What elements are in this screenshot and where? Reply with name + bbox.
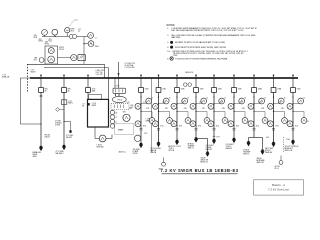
wire stub to relay A x254 — [254, 103, 262, 105]
svg-text:1 LT2: 1 LT2 — [239, 102, 243, 104]
relay 50G x273.5 — [282, 118, 288, 124]
panel 1LTS SWBT thick rectangle — [88, 99, 109, 127]
ct mark feeder F1 — [40, 94, 43, 96]
relay 51G x234 — [228, 121, 234, 127]
meter M3 varmeter — [65, 28, 70, 33]
svg-text:4TB-BLB: 4TB-BLB — [55, 122, 61, 124]
transformer T-F10a solid — [247, 141, 250, 143]
relay 50 x214 — [219, 98, 225, 104]
relay 51 x273.5 (on line left) — [268, 103, 274, 109]
svg-text:4T01: 4T01 — [216, 126, 220, 128]
svg-text:4T01: 4T01 — [295, 126, 299, 128]
svg-text:4TB: 4TB — [129, 108, 132, 110]
svg-text:7.2 KV SWGR BUS 1B 1EB3B-E3: 7.2 KV SWGR BUS 1B 1EB3B-E3 — [160, 168, 238, 173]
relay 51G x158.5 — [153, 121, 159, 127]
wire bus drop feeder F4 — [140, 78, 142, 88]
svg-text:TBR-Y2: TBR-Y2 — [243, 153, 249, 155]
svg-text:50: 50 — [187, 97, 189, 99]
ct marks feeder x214 — [213, 128, 216, 130]
svg-text:4TB: 4TB — [261, 108, 264, 110]
ct marks feeder x273.5 — [272, 128, 275, 130]
relay 51 x234 (on line left) — [228, 103, 234, 109]
svg-text:4TB: 4TB — [202, 108, 205, 110]
transformer T-F2 solid delta — [63, 145, 66, 147]
svg-text:1TB6: 1TB6 — [181, 89, 185, 91]
wire bus drop feeder F2 — [63, 78, 65, 88]
wire stub from relay box to G1 — [58, 57, 71, 59]
wire feeder F2 dashed mid — [63, 106, 65, 121]
wire feeder F5 drop — [158, 92, 160, 143]
wire stub to relay A x273.5 — [274, 103, 282, 105]
relay 50 x273.5 — [278, 98, 284, 104]
junction dots feeder x293 — [292, 96, 293, 97]
svg-text:(TB)-5T: (TB)-5T — [45, 136, 51, 138]
svg-text:4T01: 4T01 — [179, 126, 183, 128]
wire dashed pointer to PT1 — [69, 21, 74, 28]
svg-text:BILL BE IN INSTALLED UPPER BTT: BILL BE IN INSTALLED UPPER BTT/BTB, TOP … — [172, 29, 245, 32]
wire feeder F9 drop — [233, 92, 235, 139]
wire stub to relay A x177 — [177, 103, 185, 105]
svg-text:4T 1/8B: 4T 1/8B — [55, 121, 61, 123]
svg-text:SWLR: SWLR — [31, 72, 37, 74]
svg-text:7.2 kV One-Line: 7.2 kV One-Line — [268, 188, 289, 192]
svg-text:WB8-132: WB8-132 — [257, 162, 264, 164]
svg-text:1LTS: 1LTS — [92, 89, 96, 91]
wire tie drop b x118.5 — [118, 78, 120, 88]
tick feeder F8 mid — [213, 135, 216, 137]
svg-text:MB 480C: MB 480C — [66, 137, 73, 139]
svg-text:4BLV/LCC: 4BLV/LCC — [119, 151, 127, 153]
svg-text:50: 50 — [151, 97, 153, 99]
ct marks feeder x234 — [233, 128, 236, 130]
junction dots feeder x196 — [195, 96, 196, 97]
wire stub to relay A x214 — [214, 103, 222, 105]
transformer T-F4 solid delta — [140, 143, 143, 145]
wire bus drop feeder F5 — [158, 78, 160, 88]
generator G2 circle in loop — [99, 135, 106, 142]
wire feeder F10 left leg — [248, 138, 250, 143]
wire stub above bus for feeder F8 — [213, 74, 215, 77]
wire link drop x104.5 to bus — [104, 64, 106, 78]
svg-text:SWB: SWB — [92, 91, 96, 93]
svg-text:WTR B: WTR B — [169, 150, 175, 152]
wire incoming feed drop x118.5 — [118, 62, 120, 78]
svg-text:C 1: C 1 — [95, 37, 98, 39]
svg-text:4 PV: 4 PV — [144, 133, 147, 135]
wire elbow to relay C x254 — [254, 111, 265, 113]
meter M4 watthour — [88, 33, 94, 39]
transformer 1TY2-B oval — [112, 96, 126, 102]
meter M1 ammeter — [42, 30, 48, 36]
relay 51 lower circle in box — [48, 56, 55, 63]
relay 50 x293 — [298, 98, 304, 104]
relay 51G x141 — [135, 121, 141, 127]
ground symbol left group — [163, 158, 165, 163]
wire stub to relay A x141 — [141, 103, 149, 105]
wire bus drop feeder F11 — [273, 78, 275, 88]
svg-text:NOTATE TP WITE TOOK VALVE M BW: NOTATE TP WITE TOOK VALVE M BW, TOOK VL … — [175, 41, 226, 44]
svg-text:50: 50 — [224, 97, 226, 99]
relay 50G x158.5 — [167, 118, 173, 124]
title block box — [254, 180, 304, 195]
wire metering bus (horizontal) — [42, 36, 88, 38]
junction dot on panel top — [90, 99, 91, 100]
relay 50G x141 — [149, 118, 155, 124]
svg-text:1 LT2: 1 LT2 — [278, 102, 282, 104]
wire bus drop feeder F1 — [40, 78, 42, 88]
relay 51 x196 (on line left) — [190, 103, 196, 109]
breaker CB-F4 square — [139, 88, 144, 93]
junction dots feeder x234 — [233, 96, 234, 97]
wire bus drop feeder F9 — [233, 78, 235, 88]
bus 7.2kV SWGR BUS 1B (main horizontal bus) — [30, 77, 298, 79]
relay 51 x141 (on line left) — [135, 103, 141, 109]
ct marks feeder x196 — [195, 128, 198, 130]
svg-text:1LT: 1LT — [82, 104, 84, 106]
svg-text:BT102: BT102 — [59, 49, 64, 51]
svg-text:TLPL.: TLPL. — [173, 55, 179, 57]
wire bus drop feeder F6 — [176, 78, 178, 88]
svg-text:WNLP-LB: WNLP-LB — [285, 150, 294, 152]
svg-text:BATTING.: BATTING. — [172, 36, 182, 39]
svg-text:SPARE: SPARE — [118, 129, 124, 132]
wire bus drop feeder F8 — [213, 78, 215, 88]
svg-text:4 BV: 4 BV — [123, 112, 126, 114]
svg-text:1 LT2: 1 LT2 — [68, 101, 72, 103]
wire feeder F10 right leg — [262, 138, 264, 152]
meter M5 watthour demand — [84, 43, 88, 45]
relay 51 x254 (on line left) — [248, 103, 254, 109]
title underline — [162, 173, 238, 175]
transformer PT1 two overlapping circles — [69, 35, 73, 39]
svg-text:4T01: 4T01 — [71, 30, 75, 32]
svg-text:WH 1: WH 1 — [95, 46, 99, 48]
svg-text:Basics - 2: Basics - 2 — [272, 183, 285, 187]
svg-text:50: 50 — [264, 97, 266, 99]
svg-text:1 TY 2: 1 TY 2 — [115, 86, 120, 88]
breaker CB-F11 square — [271, 88, 276, 93]
wire elbow to relay C x196 — [196, 111, 207, 113]
wire feeder F8 drop — [213, 92, 215, 140]
ct marks feeder x141 — [140, 128, 143, 130]
svg-text:50: 50 — [303, 97, 305, 99]
svg-text:WBR-33: WBR-33 — [226, 148, 233, 150]
wire stub above bus for feeder F5 — [158, 74, 160, 77]
wire feeder x88 into switchboard — [87, 92, 89, 99]
svg-text:4TB: 4TB — [49, 39, 52, 41]
label box above panel — [89, 95, 102, 100]
wire feeder F12 drop — [292, 92, 294, 141]
transformer T-F8 solid delta — [213, 139, 216, 141]
relay chain on panel right edge — [110, 110, 114, 114]
wire stub above bus for feeder F12 — [292, 74, 294, 77]
svg-text:1 LT2: 1 LT2 — [181, 102, 185, 104]
relay 50 x177 — [182, 98, 188, 104]
wire stub above bus for feeder F3 — [87, 74, 89, 77]
svg-text:1TB4: 1TB4 — [145, 89, 149, 91]
wire link line upper y65 — [28, 63, 105, 65]
svg-text:SWBT: SWBT — [92, 105, 97, 107]
relay 50 x158.5 — [163, 98, 169, 104]
breaker aux box (rounded) — [113, 88, 126, 93]
svg-text:(T)DH: (T)DH — [133, 153, 138, 155]
relay 51G x293 — [287, 121, 293, 127]
wire L-branch from feeder F7 — [196, 138, 208, 140]
svg-text:1-4/C PB: 1-4/C PB — [96, 74, 104, 76]
motor starter G1 circle with rounded box — [71, 55, 77, 61]
wire relay box drop to link — [50, 63, 52, 65]
svg-text:4 PV: 4 PV — [266, 137, 269, 139]
svg-text:4T 1 SWB: 4T 1 SWB — [66, 135, 73, 137]
transformer T-F9 solid delta — [233, 138, 236, 140]
wire link line lower y67.6 — [44, 67, 109, 69]
wire feeder F4 drop — [140, 92, 142, 144]
relay 51G x196 — [190, 121, 196, 127]
svg-text:B4BT2: B4BT2 — [68, 103, 73, 105]
breaker CB-F1 square — [39, 88, 44, 93]
wire bus drop feeder F12 — [292, 78, 294, 88]
junction dots feeder x273.5 — [273, 96, 274, 97]
relay 52 below spare box — [134, 135, 140, 141]
relay 51 x158.5 (on line left) — [153, 103, 159, 109]
wire elbow to relay C x214 — [214, 111, 225, 113]
ct marks feeder x293 — [292, 128, 295, 130]
breaker CB-F6 square — [175, 88, 180, 93]
wire loop right stub — [111, 135, 113, 139]
wire stub above bus for feeder F1 — [40, 74, 42, 77]
svg-text:TB DWLS PB BTTST BTTL CWTEL CW: TB DWLS PB BTTST BTTL CWTEL CWLT TP CWLT… — [173, 53, 245, 55]
ct marks feeder x177 — [176, 128, 179, 130]
svg-text:4TB: 4TB — [165, 108, 168, 110]
svg-text:1 LT2: 1 LT2 — [199, 102, 203, 104]
svg-text:1 LT2: 1 LT2 — [258, 102, 262, 104]
svg-text:SOLSTB BTTW RVP/TERP GWLY M RW: SOLSTB BTTW RVP/TERP GWLY M RW, GWLT M R… — [175, 47, 227, 49]
wire elbow to relay C x273.5 — [274, 111, 285, 113]
wire elbow to relay C x293 — [293, 111, 304, 113]
wire feeder F10 drop — [253, 92, 255, 137]
wire loop below panel left stub — [94, 127, 96, 139]
wire feeder F7 drop — [195, 92, 197, 139]
breaker CB-F3 square — [86, 88, 91, 93]
svg-text:50: 50 — [284, 97, 286, 99]
svg-text:WBR-32: WBR-32 — [206, 149, 213, 151]
svg-text:5B: 5B — [115, 113, 117, 115]
svg-text:1 BLTS: 1 BLTS — [97, 145, 102, 147]
meter M2 voltmeter — [52, 29, 58, 35]
svg-text:5.L.: 5.L. — [167, 51, 171, 53]
svg-text:4T01: 4T01 — [143, 126, 147, 128]
svg-text:MTR-1: MTR-1 — [39, 41, 44, 43]
relay 50 x254 — [259, 98, 265, 104]
svg-text:4 PV: 4 PV — [216, 136, 219, 138]
wire elbow to relay C x141 — [141, 111, 152, 113]
relay 50 x234 — [239, 98, 245, 104]
svg-text:1 PT: 1 PT — [74, 20, 77, 22]
wire stub above bus for feeder F2 — [63, 74, 65, 77]
wire elbow to relay C x234 — [234, 111, 245, 113]
wire loop bottom left — [95, 138, 99, 140]
wire feeder F10 tee — [249, 137, 263, 139]
wire elbow to relay C x158.5 — [159, 111, 170, 113]
relay 51 x293 (on line left) — [287, 103, 293, 109]
junction dots feeder x141 — [140, 96, 141, 97]
svg-text:MT-2: MT-2 — [49, 41, 53, 43]
svg-text:4TB: 4TB — [222, 108, 225, 110]
wire feeder F11 drop — [273, 92, 275, 143]
wire bus drop feeder F10 — [253, 78, 255, 88]
svg-text:MR - GROUND TRIO BE LOCALLY PR: MR - GROUND TRIO BE LOCALLY PRINTED PROV… — [172, 34, 256, 37]
svg-text:SWB2: SWB2 — [146, 120, 151, 122]
relay 50 x141 — [146, 98, 152, 104]
wire stub above bus for feeder F10 — [253, 74, 255, 77]
relay 50 x196 — [201, 98, 207, 104]
svg-text:JBUS-154: JBUS-154 — [185, 72, 193, 74]
wire loop bottom right — [106, 138, 112, 140]
junction dots feeder x214 — [213, 96, 214, 97]
transformer T-tie solid — [206, 152, 209, 154]
svg-text:MTR-2: MTR-2 — [59, 47, 64, 49]
svg-text:50: 50 — [206, 97, 208, 99]
svg-text:4TB: 4TB — [146, 108, 149, 110]
svg-text:LMB 1B: LMB 1B — [150, 152, 157, 154]
wire dashed tie stub left of bus — [27, 64, 29, 92]
wire stub above bus for feeder F11 — [273, 74, 275, 77]
svg-text:1TB9: 1TB9 — [238, 89, 242, 91]
breaker CB-F8 square — [212, 88, 217, 93]
junction dots below aux box — [115, 94, 116, 95]
relay 50G x177 — [185, 118, 191, 124]
svg-text:50: 50 — [244, 97, 246, 99]
svg-text:1TB5: 1TB5 — [162, 89, 166, 91]
breaker CB-F2 square — [62, 88, 67, 93]
svg-text:4TB: 4TB — [131, 105, 134, 107]
relay pair above breakers near x185 — [184, 83, 188, 87]
svg-text:1TBB: 1TBB — [277, 89, 281, 91]
svg-text:1 LTS: 1 LTS — [146, 119, 150, 121]
ct marks feeder x254 — [253, 128, 256, 130]
wire bus drop x108.5 (panel right riser) — [108, 78, 110, 99]
svg-text:1 LT2: 1 LT2 — [162, 102, 166, 104]
wire bus drop feeder F3 — [87, 78, 89, 88]
relay box K1 — [45, 46, 58, 64]
switch box on feeder F2 — [61, 100, 66, 105]
svg-text:4T01: 4T01 — [160, 126, 164, 128]
wire bus drop feeder F7 — [195, 78, 197, 88]
svg-text:4TB: 4TB — [39, 39, 42, 41]
wire dashed aux right x283 — [283, 137, 285, 152]
wire stub to relay A x234 — [234, 103, 242, 105]
svg-text:PT: PT — [78, 31, 80, 33]
svg-text:4B 1TB: 4B 1TB — [275, 166, 280, 168]
ground symbol right group — [280, 156, 282, 161]
transformer T-F11 solid delta — [272, 142, 275, 144]
svg-text:TBR-Y1: TBR-Y1 — [188, 148, 194, 150]
wire feeder F6 drop — [176, 92, 178, 141]
relay 51G x177 — [171, 121, 177, 127]
svg-text:1 LT2: 1 LT2 — [143, 102, 147, 104]
relay 50G x214 — [222, 118, 228, 124]
wire parallel feed loop left — [20, 78, 41, 124]
svg-text:NOTES:: NOTES: — [167, 25, 176, 27]
relay 51 x177 (on line left) — [171, 103, 177, 109]
relay 50G x254 — [262, 118, 268, 124]
svg-text:4TT: 4TT — [78, 29, 81, 31]
wire F2 L-branch — [64, 121, 71, 123]
svg-text:1 LT2: 1 LT2 — [219, 102, 223, 104]
relay 50G x234 — [242, 118, 248, 124]
wire stub above bus for feeder F6 — [176, 74, 178, 77]
svg-text:BT1: BT1 — [34, 60, 37, 62]
svg-text:1TB8: 1TB8 — [218, 89, 222, 91]
relay 51G x214 — [208, 121, 214, 127]
wire stub to relay A x293 — [293, 103, 301, 105]
svg-text:BKR3-X2: BKR3-X2 — [201, 162, 208, 164]
relay 51 x214 (on line left) — [208, 103, 214, 109]
wire stub to relay A x196 — [196, 103, 204, 105]
wire riser from metering bus down — [83, 37, 85, 65]
svg-text:4T01: 4T01 — [275, 126, 279, 128]
svg-text:4T01: 4T01 — [198, 126, 202, 128]
svg-text:BT-L3: BT-L3 — [275, 168, 279, 170]
breaker CB-F10 square — [252, 88, 257, 93]
wire link drop x108.5 to bus — [108, 68, 110, 78]
wire tie drop a x115 — [114, 78, 116, 88]
transformer T-F5 solid delta — [157, 142, 160, 144]
metering dashed box below oval — [111, 103, 129, 109]
svg-text:MTR2: MTR2 — [45, 44, 49, 46]
wire feeder F2 drop — [63, 92, 65, 146]
transformer T-F10b solid — [261, 150, 264, 152]
svg-text:4T01: 4T01 — [256, 126, 260, 128]
breaker CB-F5 square — [156, 88, 161, 93]
transformer T-F7 solid delta — [195, 137, 198, 139]
junction dots feeder x177 — [176, 96, 177, 97]
svg-text:4TB: 4TB — [242, 108, 245, 110]
svg-text:WBR-3B: WBR-3B — [265, 152, 273, 154]
svg-text:SB: SB — [82, 105, 84, 107]
ct solid mark on panel left edge — [87, 103, 89, 105]
relay 50G x293 — [301, 118, 307, 124]
breaker CB-F12 square — [291, 88, 296, 93]
relay 51G x273.5 — [268, 121, 274, 127]
svg-text:MTR 1: MTR 1 — [71, 29, 76, 31]
spare cubicle dashed box — [115, 124, 134, 135]
svg-text:B07B 480: B07B 480 — [97, 147, 104, 149]
wire stub above bus for feeder F4 — [140, 74, 142, 77]
wire stub to relay A x158.5 — [159, 103, 167, 105]
relay 64 small circle left of box — [39, 58, 44, 63]
wire feeder F1 drop — [40, 92, 42, 147]
svg-text:SWB-1B: SWB-1B — [2, 77, 10, 79]
svg-text:TOOK BCCSS TP TB RW PWSSS PRWS: TOOK BCCSS TP TB RW PWSSS PRWSTB, RW PWS… — [175, 58, 228, 60]
svg-text:1 Brk: 1 Brk — [286, 139, 290, 141]
wire elbow to relay C x177 — [177, 111, 188, 113]
svg-text:4TB: 4TB — [184, 108, 187, 110]
svg-text:7.2 12KV GB: 7.2 12KV GB — [125, 67, 136, 69]
relay 86 big circle — [123, 114, 130, 121]
wire section boundary vertical x151.5 — [151, 78, 153, 152]
relay 50G x196 — [204, 118, 210, 124]
breaker CB-F7 square — [194, 88, 199, 93]
svg-text:4T B/B: 4T B/B — [55, 124, 60, 126]
svg-text:1 LT2: 1 LT2 — [126, 102, 130, 104]
relay 87 upper circle in box — [48, 48, 54, 54]
ct marks feeder x158.5 — [157, 128, 160, 130]
svg-text:5T: 5T — [115, 117, 117, 119]
transformer T-F1 solid delta — [40, 146, 43, 148]
relay 51G x254 — [248, 121, 254, 127]
breaker CB-F9 square — [232, 88, 237, 93]
